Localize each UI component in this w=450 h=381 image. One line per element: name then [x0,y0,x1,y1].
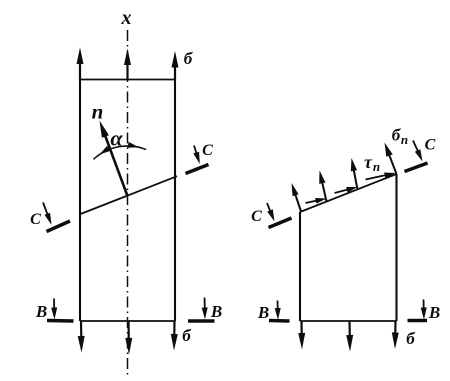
svg-text:x: x [121,7,132,29]
svg-text:n: n [92,100,104,124]
svg-text:C: C [202,142,213,159]
svg-text:τ: τ [364,152,373,172]
svg-text:n: n [373,159,380,174]
svg-text:C: C [425,137,436,154]
svg-text:n: n [401,132,408,147]
svg-text:B: B [35,302,47,321]
svg-text:B: B [257,303,269,322]
svg-text:α: α [110,126,123,151]
svg-text:B: B [428,303,440,322]
svg-text:C: C [30,211,41,228]
svg-text:C: C [251,208,262,225]
svg-text:B: B [210,302,222,321]
